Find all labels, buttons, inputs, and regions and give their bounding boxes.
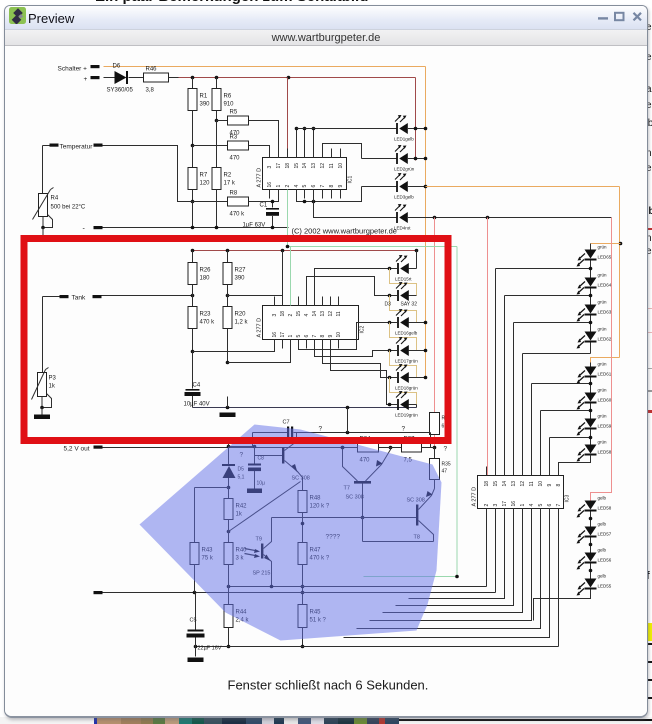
svg-text:LED61: LED61 bbox=[598, 372, 612, 377]
svg-text:13: 13 bbox=[320, 311, 326, 317]
wire R4 wiper bbox=[44, 215, 53, 228]
wire R5 to IC1 pin 17 bbox=[249, 121, 279, 158]
wire Temperatur right leg bbox=[103, 146, 193, 202]
wire bbox=[590, 244, 592, 250]
svg-text:500 bei 22°C: 500 bei 22°C bbox=[51, 205, 86, 211]
wire bbox=[169, 77, 179, 79]
svg-text:LED15rt: LED15rt bbox=[395, 277, 412, 282]
resistor R6 bbox=[216, 78, 218, 89]
wire bbox=[409, 377, 426, 379]
wire return rail bbox=[103, 227, 289, 229]
wire bbox=[227, 251, 229, 263]
svg-text:18: 18 bbox=[285, 163, 291, 169]
svg-text:8: 8 bbox=[329, 185, 335, 188]
svg-text:6: 6 bbox=[547, 504, 553, 507]
svg-text:R8: R8 bbox=[230, 191, 238, 197]
wire bbox=[362, 484, 364, 518]
wire to IC2 pin 16 bbox=[193, 340, 275, 352]
wire bbox=[227, 397, 229, 408]
svg-text:R46: R46 bbox=[146, 67, 158, 73]
wire bbox=[302, 565, 304, 605]
ground bbox=[34, 415, 50, 420]
svg-text:5: 5 bbox=[538, 504, 544, 507]
svg-text:LED64: LED64 bbox=[598, 283, 612, 288]
wire green to IC2 pin 2 bbox=[290, 247, 292, 306]
op-amp/driver IC U1 A277D IC1 bbox=[263, 158, 347, 190]
wire staircase IC3 to right LED column bbox=[495, 269, 497, 476]
LED D-LED3gelb bbox=[394, 173, 414, 200]
wire bbox=[228, 520, 230, 543]
wire bbox=[43, 145, 50, 147]
resistor R1 bbox=[188, 89, 197, 111]
svg-text:Temperatur: Temperatur bbox=[60, 144, 94, 151]
svg-text:8: 8 bbox=[556, 484, 562, 487]
wire green horizontal bbox=[288, 246, 458, 248]
svg-text:3: 3 bbox=[272, 314, 278, 317]
svg-text:LED3gelb: LED3gelb bbox=[394, 195, 414, 200]
junction bbox=[191, 144, 195, 148]
wire bbox=[422, 447, 435, 449]
background page: heading text clipped at top bbox=[95, 0, 368, 5]
wire bbox=[590, 404, 592, 419]
wire bbox=[416, 405, 418, 408]
wire T9 emitter bbox=[264, 555, 272, 587]
wire bbox=[228, 587, 230, 605]
wire dark red vertical into IC1 pin 18 bbox=[287, 78, 289, 158]
wire T10 base bbox=[255, 455, 283, 457]
svg-text:7: 7 bbox=[320, 185, 326, 188]
svg-text:+: + bbox=[84, 76, 88, 83]
junction bbox=[215, 76, 219, 80]
op-amp/driver IC U3 A277D IC3 bbox=[478, 476, 564, 509]
junction bbox=[191, 76, 195, 80]
LED D-LED15rt bbox=[395, 255, 412, 282]
svg-text:10: 10 bbox=[538, 481, 544, 487]
wire dark red supply rail bbox=[179, 77, 416, 79]
svg-text:?: ? bbox=[444, 446, 448, 453]
svg-text:17: 17 bbox=[280, 332, 286, 338]
svg-text:LED19grün: LED19grün bbox=[395, 413, 418, 418]
svg-text:8: 8 bbox=[320, 335, 326, 338]
svg-text:15: 15 bbox=[294, 163, 300, 169]
svg-text:12: 12 bbox=[520, 481, 526, 487]
wire bbox=[590, 343, 592, 346]
svg-text:C1: C1 bbox=[260, 203, 268, 209]
resistor R5 bbox=[228, 116, 249, 125]
svg-text:3: 3 bbox=[493, 504, 499, 507]
wire T8 collector bbox=[419, 489, 435, 510]
svg-text:9: 9 bbox=[328, 335, 334, 338]
junction bbox=[41, 226, 45, 230]
svg-text:16: 16 bbox=[511, 501, 517, 507]
svg-text:11: 11 bbox=[529, 481, 535, 486]
wire bbox=[194, 488, 196, 543]
svg-text:16: 16 bbox=[267, 182, 273, 188]
svg-text:A 277 D: A 277 D bbox=[472, 487, 478, 507]
svg-text:15: 15 bbox=[493, 481, 499, 487]
wire bbox=[590, 261, 592, 278]
resistor R8 bbox=[193, 201, 228, 203]
resistor R27 bbox=[223, 263, 232, 285]
svg-text:IC1: IC1 bbox=[348, 176, 354, 184]
wire bbox=[228, 628, 230, 647]
svg-text:LED56: LED56 bbox=[598, 558, 612, 563]
wire bbox=[590, 316, 592, 332]
svg-text:17: 17 bbox=[502, 501, 508, 507]
svg-text:910: 910 bbox=[224, 102, 235, 108]
svg-text:LED18grün: LED18grün bbox=[395, 386, 418, 391]
svg-text:gelb: gelb bbox=[598, 574, 607, 579]
svg-text:grün: grün bbox=[598, 327, 608, 332]
wire T7 emitter bbox=[366, 448, 391, 482]
wire nest from IC3 bottom pins bbox=[486, 509, 488, 587]
svg-text:470 k: 470 k bbox=[200, 320, 216, 326]
wire LED55 down bbox=[534, 590, 591, 621]
svg-text:6: 6 bbox=[304, 335, 310, 338]
svg-text:?: ? bbox=[402, 426, 406, 433]
svg-text:4: 4 bbox=[294, 185, 300, 188]
wire green vertical right bbox=[456, 247, 458, 577]
wire orange vertical rail bbox=[425, 67, 427, 378]
resistor R42 bbox=[224, 499, 233, 520]
resistor R6 bbox=[212, 89, 221, 111]
wire LED2 net bbox=[362, 158, 397, 160]
LED D-LED64 bbox=[577, 273, 612, 295]
svg-text:grün: grün bbox=[598, 414, 608, 419]
wire dark red vertical rail bbox=[415, 78, 417, 161]
wire bbox=[590, 346, 592, 354]
wire bbox=[409, 322, 426, 324]
svg-text:-: - bbox=[83, 226, 86, 233]
resistor R23 bbox=[188, 307, 197, 329]
svg-text:C7: C7 bbox=[283, 420, 290, 426]
svg-text:IC2: IC2 bbox=[360, 326, 366, 334]
svg-text:R4: R4 bbox=[51, 196, 59, 202]
red annotation rectangle bbox=[24, 239, 448, 441]
svg-text:P3: P3 bbox=[49, 376, 57, 382]
svg-text:14: 14 bbox=[312, 311, 318, 317]
svg-text:5,2 V out: 5,2 V out bbox=[64, 446, 90, 453]
wire P3 wiper bbox=[43, 394, 52, 408]
svg-text:A 277 D: A 277 D bbox=[257, 318, 263, 338]
wire bbox=[559, 455, 591, 476]
wire loop to LED3 bbox=[297, 187, 362, 202]
svg-text:R7: R7 bbox=[200, 173, 208, 179]
svg-text:LED63: LED63 bbox=[598, 310, 612, 315]
svg-text:14: 14 bbox=[302, 163, 308, 169]
svg-text:2: 2 bbox=[288, 314, 294, 317]
svg-text:R2: R2 bbox=[224, 173, 232, 179]
svg-text:R5: R5 bbox=[230, 110, 238, 116]
svg-text:C4: C4 bbox=[193, 383, 201, 389]
wire bbox=[590, 363, 592, 367]
svg-text:LED65: LED65 bbox=[598, 255, 612, 260]
svg-text:15: 15 bbox=[296, 311, 302, 317]
svg-text:3: 3 bbox=[267, 166, 273, 169]
wire orange + rail from Schalter bbox=[104, 66, 426, 68]
wire bbox=[302, 513, 304, 543]
svg-text:4: 4 bbox=[529, 504, 535, 507]
wire green from IC1 pin 2 bbox=[287, 190, 289, 247]
wire bbox=[192, 251, 194, 263]
resistor R48 bbox=[298, 491, 307, 513]
svg-text:10: 10 bbox=[336, 332, 342, 338]
svg-text:14: 14 bbox=[502, 481, 508, 487]
wire 5.2V rail bbox=[103, 447, 358, 449]
svg-text:R3: R3 bbox=[230, 135, 238, 141]
svg-text:LED58: LED58 bbox=[598, 506, 612, 511]
wire IC1 staircase to LEDs bbox=[296, 129, 298, 158]
svg-text:16: 16 bbox=[272, 332, 278, 338]
resistor R40 bbox=[224, 543, 233, 565]
svg-text:grün: grün bbox=[598, 440, 608, 445]
svg-text:1: 1 bbox=[288, 335, 294, 338]
wire green horizontal bottom bbox=[364, 576, 458, 578]
svg-text:1k: 1k bbox=[49, 384, 56, 390]
diode D6 SY360/05 bbox=[104, 77, 115, 79]
wire orange feed LED61 bbox=[591, 358, 620, 363]
svg-text:SY360/05: SY360/05 bbox=[107, 88, 134, 94]
wire bbox=[192, 111, 194, 146]
svg-text:390: 390 bbox=[200, 102, 211, 108]
svg-text:47: 47 bbox=[442, 469, 448, 475]
svg-text:5: 5 bbox=[302, 185, 308, 188]
LED D-LED4rot bbox=[394, 204, 411, 231]
LED D-LED57 bbox=[577, 522, 612, 544]
LED D-LED16gelb bbox=[395, 309, 418, 336]
wire rail bbox=[229, 586, 487, 588]
resistor R34 bbox=[358, 443, 379, 452]
transistor T8 SC 308 bbox=[416, 505, 418, 526]
wire bbox=[43, 296, 60, 298]
wire to IC2 pin 18 bbox=[228, 296, 283, 306]
wire bbox=[590, 538, 592, 553]
wire bbox=[41, 408, 43, 415]
svg-text:2: 2 bbox=[484, 504, 490, 507]
svg-text:6: 6 bbox=[311, 185, 317, 188]
svg-text:grün: grün bbox=[598, 273, 608, 278]
transistor T7 SC 308 bbox=[354, 481, 371, 484]
svg-text:17 k: 17 k bbox=[224, 181, 236, 187]
resistor R3 bbox=[228, 141, 249, 150]
wire orange feed LED65 bbox=[591, 243, 621, 245]
svg-text:7: 7 bbox=[312, 335, 318, 338]
svg-text:R6: R6 bbox=[224, 94, 232, 100]
wire dark red rail stage 2 bbox=[193, 250, 417, 252]
wire bbox=[42, 297, 44, 373]
LED D-LED2gruen bbox=[394, 145, 415, 172]
svg-text:LED16gelb: LED16gelb bbox=[395, 331, 418, 336]
junction bbox=[619, 242, 623, 246]
resistor R44 bbox=[224, 605, 233, 628]
LED D-LED59 bbox=[577, 414, 612, 436]
wire bbox=[192, 190, 194, 202]
svg-text:D3: D3 bbox=[385, 302, 392, 308]
svg-text:grün: grün bbox=[598, 388, 608, 393]
wire bbox=[228, 565, 230, 587]
svg-text:4: 4 bbox=[304, 314, 310, 317]
wire bbox=[409, 295, 417, 297]
resistor R35 47 bbox=[434, 448, 436, 459]
svg-text:470: 470 bbox=[230, 156, 241, 162]
op-amp/driver IC U2 A277D IC2 bbox=[263, 306, 359, 340]
resistor R5 bbox=[217, 120, 228, 122]
svg-text:LED57: LED57 bbox=[598, 532, 612, 537]
resistor R43 bbox=[190, 543, 199, 565]
wire bbox=[590, 564, 592, 579]
wire bbox=[216, 121, 218, 168]
wire T9-T8 base link bbox=[272, 517, 417, 519]
wire IC2 staircase to tank LEDs bbox=[315, 269, 390, 306]
svg-text:1,2 k: 1,2 k bbox=[235, 320, 249, 326]
wire bbox=[409, 268, 417, 270]
wire bbox=[302, 628, 304, 647]
wire ground rail bbox=[196, 646, 559, 648]
wire bbox=[229, 446, 255, 448]
resistor R26 bbox=[188, 263, 197, 285]
LED D-LED65 bbox=[577, 245, 612, 267]
svg-text:18: 18 bbox=[280, 311, 286, 317]
wire bbox=[216, 190, 218, 228]
junction bbox=[227, 530, 231, 534]
wire bbox=[194, 565, 196, 593]
svg-text:LED60: LED60 bbox=[598, 398, 612, 403]
wire bbox=[408, 128, 426, 130]
ground bbox=[188, 658, 204, 663]
wire T7 collector bbox=[343, 448, 358, 482]
wire bbox=[409, 350, 426, 352]
svg-text:LED1gelb: LED1gelb bbox=[394, 137, 414, 142]
resistor R47 bbox=[298, 543, 307, 565]
resistor R37 bbox=[402, 443, 422, 452]
wire orange vertical right bbox=[619, 187, 621, 358]
wire pink vertical to R36 bbox=[434, 218, 436, 413]
svg-text:470 k: 470 k bbox=[230, 212, 246, 218]
wire bbox=[227, 285, 229, 307]
svg-text:Tank: Tank bbox=[72, 295, 86, 302]
wire bbox=[590, 455, 592, 456]
wire bbox=[42, 146, 44, 194]
LED D-LED58 bbox=[577, 496, 612, 518]
svg-text:11: 11 bbox=[329, 163, 335, 168]
svg-text:LED62: LED62 bbox=[598, 337, 612, 342]
wire bbox=[42, 217, 44, 228]
svg-text:LED59: LED59 bbox=[598, 424, 612, 429]
LED D-LED60 bbox=[577, 388, 612, 410]
junction bbox=[287, 76, 291, 80]
wire bbox=[590, 378, 592, 393]
wire bbox=[227, 329, 229, 363]
svg-text:grün: grün bbox=[598, 300, 608, 305]
wire LED1 net bbox=[297, 128, 397, 130]
svg-text:D6: D6 bbox=[113, 64, 121, 70]
svg-text:2: 2 bbox=[285, 185, 291, 188]
resistor R2 bbox=[212, 168, 221, 190]
wire tan series links of tank LED chain bbox=[390, 269, 417, 296]
svg-text:?: ? bbox=[319, 426, 323, 433]
LED D-LED18gruen bbox=[395, 364, 418, 391]
svg-text:11: 11 bbox=[336, 311, 342, 316]
wire to IC2 pin 1 bbox=[228, 340, 291, 363]
ground bbox=[220, 413, 236, 418]
wire bbox=[195, 487, 229, 489]
resistor R45 bbox=[298, 605, 307, 628]
svg-text:390: 390 bbox=[235, 276, 246, 282]
wire bbox=[216, 111, 218, 121]
svg-text:7: 7 bbox=[556, 504, 562, 507]
svg-text:R20: R20 bbox=[235, 312, 247, 318]
svg-text:grün: grün bbox=[598, 245, 608, 250]
wire bbox=[192, 329, 194, 352]
wire bbox=[41, 397, 43, 408]
svg-text:120: 120 bbox=[200, 181, 211, 187]
wire diagonal to R48 bbox=[229, 482, 301, 532]
svg-text:3,8: 3,8 bbox=[146, 88, 155, 94]
svg-text:9: 9 bbox=[338, 185, 344, 188]
resistor R7 bbox=[188, 168, 197, 190]
wire bbox=[409, 404, 417, 406]
wire bbox=[347, 408, 349, 433]
wire bbox=[282, 251, 284, 306]
resistor R20 bbox=[223, 307, 232, 329]
wire bbox=[590, 289, 592, 305]
LED D-LED61 bbox=[577, 362, 612, 384]
svg-text:A 277 D: A 277 D bbox=[257, 168, 263, 188]
wire bbox=[434, 435, 436, 447]
transistor T10 SC 308 bbox=[282, 448, 284, 464]
svg-text:9: 9 bbox=[547, 484, 553, 487]
LED D-LED56 bbox=[577, 548, 612, 570]
wire R3 to IC1 pin 3 bbox=[249, 146, 270, 158]
wire T9 collector bbox=[264, 518, 272, 549]
junction bbox=[227, 486, 231, 490]
wire bbox=[192, 285, 194, 307]
svg-text:gelb: gelb bbox=[598, 496, 607, 501]
svg-text:R27: R27 bbox=[235, 268, 247, 274]
svg-text:17: 17 bbox=[276, 163, 282, 169]
wire bbox=[431, 433, 435, 448]
svg-text:R26: R26 bbox=[200, 268, 212, 274]
junction bbox=[191, 200, 195, 204]
thermistor R4 500 bei 22C bbox=[39, 194, 48, 217]
wire bbox=[363, 541, 434, 543]
svg-text:LED2grün: LED2grün bbox=[394, 167, 415, 172]
LED D-LED58b bbox=[577, 440, 612, 462]
junction bbox=[215, 119, 219, 123]
svg-text:(C) 2002 www.wartburgpeter.de: (C) 2002 www.wartburgpeter.de bbox=[292, 227, 397, 236]
svg-text:Schalter +: Schalter + bbox=[58, 66, 88, 73]
svg-text:LED55: LED55 bbox=[598, 584, 612, 589]
wire bbox=[416, 251, 418, 269]
wire bbox=[379, 447, 402, 449]
wire bbox=[362, 518, 364, 542]
resistor R1 bbox=[192, 78, 194, 89]
svg-text:grün: grün bbox=[598, 362, 608, 367]
wire bbox=[408, 186, 426, 188]
svg-text:13: 13 bbox=[511, 481, 517, 487]
wire pink vertical to gelb LED group bbox=[591, 218, 612, 501]
wire loop pin12 bbox=[323, 144, 362, 159]
LED D-LED62 bbox=[577, 327, 612, 349]
svg-text:Fenster schließt nach 6 Sekund: Fenster schließt nach 6 Sekunden. bbox=[228, 678, 429, 693]
LED D-LED55 bbox=[577, 574, 612, 596]
LED D-LED63 bbox=[577, 300, 612, 322]
potentiometer P3 1k bbox=[38, 373, 47, 397]
wire T10 collector bbox=[285, 433, 297, 451]
wire LED4 to right rail bbox=[408, 217, 612, 219]
zener diode D5 5,1 bbox=[228, 443, 230, 466]
svg-text:5: 5 bbox=[296, 335, 302, 338]
